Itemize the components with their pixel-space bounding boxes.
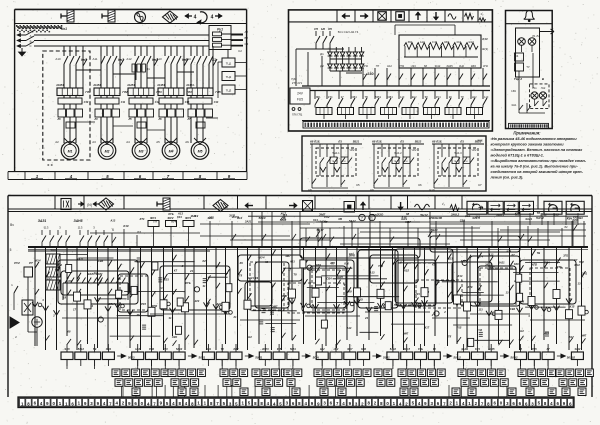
svg-text:ЭМ7: ЭМ7 [272,304,278,308]
svg-text:ГЛ2: ГЛ2 [122,90,128,94]
svg-text:26: 26 [136,313,140,317]
svg-text:223: 223 [475,215,481,219]
svg-text:К29: К29 [515,212,520,216]
svg-text:21: 21 [233,315,237,319]
svg-text:М3: М3 [139,150,144,154]
svg-text:113: 113 [400,95,405,99]
svg-text:А14В1: А14В1 [185,84,194,87]
svg-text:М5: М5 [198,150,203,154]
svg-text:А13В1: А13В1 [156,84,165,87]
svg-text:5Н4.1: 5Н4.1 [332,151,340,155]
svg-text:ТЦ3: ТЦ3 [226,89,232,93]
svg-text:К13: К13 [482,37,488,41]
svg-text:Н12: Н12 [320,347,325,351]
svg-text:4: 4 [211,15,214,21]
svg-text:13: 13 [312,305,315,309]
svg-text:ГЛ5: ГЛ5 [215,90,221,94]
svg-text:113: 113 [478,307,483,311]
svg-text:5А12: 5А12 [349,219,356,223]
svg-text:24: 24 [364,316,368,320]
svg-text:КУ4: КУ4 [475,347,480,351]
svg-text:К15: К15 [277,347,282,351]
svg-text:А11: А11 [93,57,98,61]
svg-text:Л12: Л12 [541,86,546,90]
svg-text:К13: К13 [458,274,463,278]
svg-text:68 Л1Б: 68 Л1Б [432,140,442,144]
svg-text:3412: 3412 [575,347,581,351]
svg-text:ЗБ1: ЗБ1 [316,95,321,99]
svg-text:контроля крутого зажима загото: контроля крутого зажима заготовки [491,142,565,146]
svg-text:А6: А6 [185,140,189,144]
svg-text:КП2: КП2 [532,263,538,267]
svg-text:31: 31 [169,316,172,320]
svg-text:моделей 6Т13Ц-1 и 6Т83Ш-1.: моделей 6Т13Ц-1 и 6Т83Ш-1. [491,153,544,157]
svg-text:ЭЗО: ЭЗО [357,298,364,302]
svg-text:Р15: Р15 [532,347,537,351]
svg-text:Ж17: Ж17 [279,211,286,215]
svg-text:С5: С5 [314,27,318,31]
svg-text:С2: С2 [245,42,249,46]
svg-text:113: 113 [78,226,83,230]
svg-text:FU5: FU5 [297,98,303,102]
svg-text:ЗАН5: ЗАН5 [74,219,83,223]
svg-text:ЗАЛ1 ЗАЛ2: ЗАЛ1 ЗАЛ2 [88,272,103,276]
svg-text:ГЛ6 ГЛ5: ГЛ6 ГЛ5 [292,113,302,117]
svg-text:А: А [30,34,32,38]
svg-text:ЧЛ2: ЧЛ2 [472,148,477,152]
svg-text:ЭЗО: ЭЗО [444,40,449,44]
svg-text:ления (см. рис.3).: ления (см. рис.3). [490,175,524,179]
svg-text:ЭМ7: ЭМ7 [285,254,291,258]
svg-text:Кн1: Кн1 [61,27,67,31]
svg-text:В2: В2 [245,36,249,40]
svg-text:С2: С2 [238,49,242,53]
svg-text:С: С [29,44,31,48]
svg-text:К29: К29 [281,217,286,221]
svg-text:КП2: КП2 [429,216,435,220]
svg-text:ЗП1: ЗП1 [108,302,114,306]
svg-text:21: 21 [189,269,193,273]
svg-text:••Электродвигат. Вентил. насос: ••Электродвигат. Вентил. насосов на стан… [491,148,584,152]
svg-text:А11В1: А11В1 [92,84,101,87]
svg-text:С11: С11 [121,101,126,104]
svg-text:17: 17 [73,307,76,311]
svg-text:Л7: Л7 [186,118,191,121]
svg-text:ка на шкалу 7а-8 (см. рис.1).: ка на шкалу 7а-8 (см. рис.1). Выполнение… [491,164,579,168]
svg-text:КТ4: КТ4 [163,347,168,351]
svg-text:М1: М1 [68,150,73,154]
svg-text:ТВ: ТВ [365,95,369,99]
svg-text:К6: К6 [418,183,422,187]
svg-text:ТЦ2: ТЦ2 [226,75,232,79]
svg-text:31: 31 [203,284,206,288]
svg-text:Л3: Л3 [459,140,464,144]
svg-text:223: 223 [163,277,169,281]
svg-text:КУ4: КУ4 [36,259,41,263]
svg-text:ЗН1: ЗН1 [582,272,588,276]
svg-text:СВ4: СВ4 [460,219,466,223]
svg-text:Д1: Д1 [320,52,324,56]
svg-text:К7: К7 [331,262,335,266]
svg-text:Н6: Н6 [321,27,325,31]
svg-text:3412: 3412 [574,263,580,267]
svg-text:СЧ2: СЧ2 [477,328,483,332]
svg-text:ЗА21: ЗА21 [245,220,252,224]
svg-text:Ж17: Ж17 [346,347,353,351]
svg-text:Н12: Н12 [472,95,477,99]
svg-text:341.5: 341.5 [403,347,410,351]
svg-text:ЗН45: ЗН45 [349,253,356,257]
svg-text:5: 5 [10,248,12,252]
svg-text:КТБ: КТБ [168,212,173,216]
svg-text:Л3: Л3 [399,140,404,144]
svg-text:ТВ: ТВ [537,251,541,255]
svg-text:24V: 24V [297,92,304,96]
svg-text:ЗБ1: ЗБ1 [461,347,467,351]
svg-text:5В22: 5В22 [415,140,422,144]
svg-text:К15: К15 [404,268,409,272]
svg-text:К10: К10 [217,302,222,306]
svg-text:КТБ: КТБ [418,347,423,351]
svg-text:Ж17: Ж17 [567,335,574,339]
svg-text:Н12: Н12 [387,64,392,68]
svg-text:А12В1: А12В1 [126,84,135,87]
svg-text:М4: М4 [169,150,174,154]
svg-text:Л11: Л11 [532,86,537,90]
svg-text:КП2: КП2 [483,64,488,68]
svg-text:КТ4: КТ4 [328,95,333,99]
svg-text:ТВ: ТВ [93,347,97,351]
svg-text:СВ4: СВ4 [388,95,394,99]
svg-text:А14: А14 [185,57,191,61]
svg-text:13: 13 [506,291,509,295]
svg-text:Н12: Н12 [237,216,243,220]
svg-text:К9: К9 [240,261,244,265]
svg-text:Н12: Н12 [135,347,140,351]
svg-text:ЭЗО: ЭЗО [172,335,177,339]
svg-text:СВ4: СВ4 [510,307,516,311]
svg-text:К5: К5 [328,27,332,31]
svg-text:К9: К9 [370,188,374,192]
svg-text:5А12: 5А12 [78,347,85,351]
svg-text:А10: А10 [55,57,61,61]
svg-text:R1: R1 [146,67,150,71]
svg-text:К10: К10 [430,188,435,192]
svg-text:Ж(3): Ж(3) [482,47,488,51]
svg-text:ЧЛ2: ЧЛ2 [412,148,417,152]
svg-text:ПТ: ПТ [154,220,158,224]
svg-text:Л3: Л3 [337,140,342,144]
svg-text:СВ4: СВ4 [326,277,332,281]
svg-text:К9: К9 [348,289,352,293]
svg-text:А3: А3 [92,140,96,144]
svg-text:4: 4 [69,174,73,179]
svg-text:ГЛ3: ГЛ3 [156,90,162,94]
svg-text:А2: А2 [55,140,59,144]
svg-text:ПТ: ПТ [376,64,380,68]
svg-text:К5: К5 [356,183,360,187]
svg-text:4: 4 [194,15,197,21]
svg-text:5А12: 5А12 [176,347,183,351]
svg-text:ФУ1: ФУ1 [150,216,156,220]
svg-text:13: 13 [578,281,581,285]
svg-text:•На размыка 45-46 подключаются: •На размыка 45-46 подключаются аппараты [491,137,578,141]
svg-text:К7: К7 [478,183,482,187]
svg-text:ЗБ1: ЗБ1 [408,40,413,44]
svg-text:5Н4.2: 5Н4.2 [394,151,402,155]
svg-text:Т8: Т8 [239,273,243,277]
svg-text:СЧ2: СЧ2 [432,40,438,44]
svg-text:К15: К15 [570,304,575,308]
svg-text:КП2: КП2 [361,347,366,351]
svg-text:Примечания:: Примечания: [513,131,541,136]
svg-text:А13: А13 [109,218,115,222]
svg-text:К13: К13 [313,218,318,222]
svg-text:КН2: КН2 [459,64,464,68]
svg-text:113: 113 [448,256,453,260]
svg-text:соединяется на второй зажимной: соединяется на второй зажимной шторе кре… [491,170,584,174]
svg-text:ТЦ1: ТЦ1 [226,62,232,66]
svg-text:А2: А2 [245,30,249,34]
svg-text:5А12: 5А12 [390,347,397,351]
svg-text:ЗА21: ЗА21 [498,261,505,265]
svg-text:А13: А13 [369,271,375,275]
svg-text:7: 7 [361,217,363,221]
svg-text:А4: А4 [126,140,130,144]
svg-text:ЭМ7: ЭМ7 [403,331,409,335]
svg-text:ЗАЗ1: ЗАЗ1 [38,219,47,223]
svg-text:КН1: КН1 [512,103,517,107]
svg-text:Л4: Л4 [93,118,98,121]
svg-text:КУ4: КУ4 [436,95,441,99]
svg-text:СВ4: СВ4 [577,216,583,220]
svg-text:КУ4: КУ4 [171,219,176,223]
svg-text:ЗА21: ЗА21 [525,217,532,221]
svg-text:СВ4: СВ4 [352,95,358,99]
svg-text:ЗБ1: ЗБ1 [465,214,471,218]
svg-text:Ж17: Ж17 [468,40,474,44]
svg-text:Л1 Л2: Л1 Л2 [532,34,540,38]
svg-text:К13: К13 [177,215,182,219]
svg-text:Н12: Н12 [334,347,339,351]
svg-text:СВ4: СВ4 [106,347,112,351]
svg-text:169: 169 [511,89,516,93]
svg-text:ЭМ7: ЭМ7 [581,333,587,337]
svg-text:Л6: Л6 [157,118,162,121]
svg-text:КП2: КП2 [363,64,368,68]
svg-text:ЗП1: ЗП1 [563,254,569,258]
svg-text:В: В [30,40,32,44]
svg-text:ЗП1: ЗП1 [209,216,215,220]
svg-text:ЗА21: ЗА21 [371,213,378,217]
svg-text:Ру1: Ру1 [217,28,223,32]
svg-text:Н12: Н12 [519,329,524,333]
svg-text:3412: 3412 [435,64,441,68]
svg-text:21: 21 [410,303,414,307]
svg-text:РП2: РП2 [149,347,155,351]
svg-text:ЗН45: ЗН45 [488,347,495,351]
svg-text:ПТ: ПТ [324,220,328,224]
svg-text:КУ4: КУ4 [260,256,265,260]
svg-text:5051: 5051 [375,95,381,99]
svg-text:68 Л1Б: 68 Л1Б [310,140,320,144]
svg-text:КТ4: КТ4 [316,263,321,267]
svg-text:ПЗЗ: ПЗЗ [291,77,297,81]
svg-text:Вч: Вч [10,223,14,227]
svg-text:5Н4.3: 5Н4.3 [454,151,462,155]
svg-text:КТБ: КТБ [185,281,190,285]
svg-text:А13: А13 [420,40,425,44]
svg-text:К10: К10 [123,224,129,228]
svg-text:ЭМ7: ЭМ7 [282,294,288,298]
svg-text:2ТУ 2У1: 2ТУ 2У1 [292,81,303,85]
svg-text:⁎ ⁎: ⁎ ⁎ [47,162,54,167]
svg-text:Т8: Т8 [293,273,297,277]
svg-text:(N): (N) [87,203,92,207]
svg-text:А10В1: А10В1 [55,84,64,87]
svg-text:РП2: РП2 [324,215,330,219]
svg-text:ЭЗО: ЭЗО [471,64,476,68]
svg-text:⁎⁎⁎: ⁎⁎⁎ [477,138,483,142]
svg-text:ПТ: ПТ [394,303,398,307]
svg-text:ЗН1: ЗН1 [191,214,197,218]
svg-text:5В21: 5В21 [353,140,360,144]
svg-text:А5: А5 [156,140,160,144]
svg-text:ЗН45: ЗН45 [446,64,453,68]
svg-text:КН2: КН2 [412,95,417,99]
svg-text:68 Л1Б: 68 Л1Б [372,140,382,144]
svg-text:•••Выработка автоматически при: •••Выработка автоматически при наладке с… [491,159,587,163]
svg-text:→ 230: → 230 [362,72,373,76]
svg-text:М2: М2 [105,150,110,154]
svg-text:5ПЛ: 5ПЛ [50,248,55,252]
svg-text:КТБ: КТБ [557,265,562,269]
svg-text:А13: А13 [346,326,352,330]
svg-text:82: 82 [564,225,568,229]
svg-text:К: К [112,228,114,232]
svg-text:5051: 5051 [290,347,296,351]
svg-text:С10: С10 [84,101,89,104]
svg-text:К10: К10 [457,40,462,44]
svg-text:113: 113 [44,226,49,230]
svg-text:223: 223 [194,299,200,303]
svg-text:РУ2: РУ2 [14,261,20,265]
svg-text:19: 19 [255,276,258,280]
svg-text:Р15: Р15 [457,325,462,329]
svg-text:223: 223 [414,292,420,296]
svg-text:Н12: Н12 [247,335,252,339]
svg-text:19: 19 [63,296,66,300]
svg-text:5С1 С12 Н11 Г4: 5С1 С12 Н11 Г4 [338,30,359,34]
svg-text:Л5: Л5 [127,118,132,121]
svg-text:Л3: Л3 [56,118,61,121]
svg-text:РП2: РП2 [399,64,405,68]
svg-text:113: 113 [484,95,489,99]
svg-text:СВ4: СВ4 [98,259,104,263]
svg-text:Ф4: Ф4 [515,54,519,58]
svg-text:223: 223 [411,64,416,68]
svg-text:Ж17: Ж17 [404,220,411,224]
svg-text:К7: К7 [174,268,178,272]
svg-text:К29: К29 [514,262,519,266]
svg-text:1: 1 [371,217,373,221]
svg-text:ЧЛ2: ЧЛ2 [350,148,355,152]
svg-text:ТУ: ТУ [526,65,530,69]
svg-text:ЗСП1: ЗСП1 [262,347,269,351]
svg-text:ТЦ2 2: ТЦ2 2 [514,77,523,81]
svg-text:5А12: 5А12 [540,213,547,217]
svg-text:К29: К29 [468,285,473,289]
svg-text:С14: С14 [214,101,219,104]
svg-text:К8: К8 [308,188,312,192]
svg-text:Ж17: Ж17 [423,325,430,329]
svg-text:68: 68 [406,212,409,216]
svg-text:ЭЗО: ЭЗО [64,347,69,351]
svg-text:14: 14 [160,286,163,290]
svg-text:ЗН1: ЗН1 [206,347,212,351]
svg-text:ЗА21: ЗА21 [247,276,254,280]
svg-text:КТ4: КТ4 [140,217,145,221]
svg-text:Р15: Р15 [141,302,146,306]
svg-text:КН2: КН2 [234,347,239,351]
svg-text:А12: А12 [126,57,132,61]
